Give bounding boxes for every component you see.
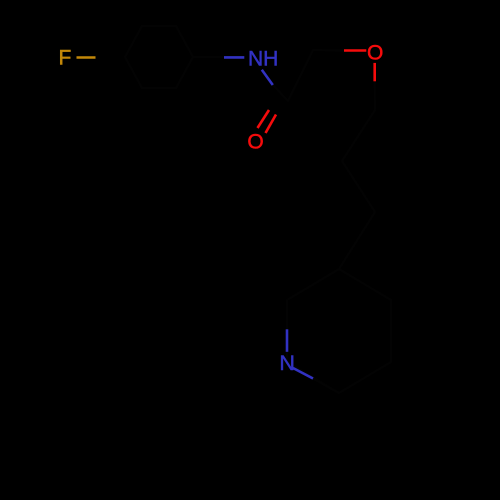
svg-text:F: F: [59, 47, 72, 70]
bond F-C aromatic (fluorine half, goldenrod): [77, 56, 96, 59]
piperidine ring: [287, 269, 391, 393]
invisible carbon skeleton (black-on-black bonds of the molecule): [125, 26, 391, 393]
svg-text:O: O: [247, 131, 263, 154]
CH2 to O carbon half: [313, 49, 344, 52]
O to CH carbon half: [374, 81, 376, 110]
svg-text:O: O: [367, 41, 383, 64]
bond C-N ring up (nitrogen half, blue): [286, 329, 289, 352]
bond C4-N half (carbon side): [193, 56, 224, 58]
bond NH-C(=O) (nitrogen half, blue): [262, 70, 273, 85]
bond N-C ring down-right (nitrogen half, blue): [293, 368, 313, 379]
carbonyl C to CH2: [288, 50, 313, 101]
bond O-CH (oxygen half, red): [373, 63, 376, 81]
bond CH2-O ether (oxygen half, red): [344, 49, 366, 52]
svg-text:NH: NH: [248, 48, 278, 71]
svg-text:N: N: [279, 351, 295, 375]
benzene ring (4-fluorophenyl): [125, 26, 193, 88]
bond C(aryl)-NH (nitrogen half, blue): [224, 56, 244, 59]
N ring bond halves (carbon side): [286, 300, 288, 329]
bond N-C(=O) carbon half: [273, 85, 289, 102]
double bond C=O (oxygen halves, red): [258, 110, 270, 128]
linker chain down to amine ring: [339, 110, 375, 269]
